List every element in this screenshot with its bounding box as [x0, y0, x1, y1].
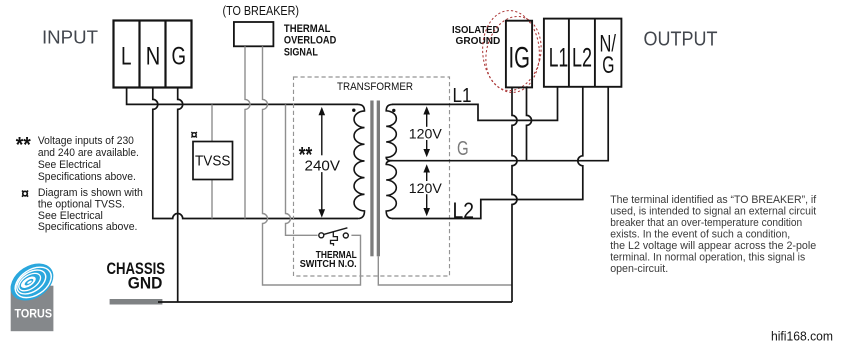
- svg-text:L1: L1: [549, 43, 568, 73]
- svg-text:open-circuit.: open-circuit.: [610, 263, 668, 275]
- wire N input with hop over L rail: [153, 88, 358, 219]
- input terminal block TB1: [114, 21, 192, 88]
- svg-text:G: G: [602, 52, 614, 79]
- svg-text:240V: 240V: [305, 158, 341, 175]
- TVSS module box: [193, 142, 233, 180]
- svg-text:G: G: [172, 43, 187, 71]
- svg-text:hifi168.com: hifi168.com: [771, 329, 833, 344]
- label THERMAL OVERLOAD SIGNAL: [284, 23, 336, 59]
- TVSS lead bottom (gray): [211, 180, 213, 219]
- primary polarity dot: [352, 109, 355, 112]
- core shield ground wire (gray): [378, 256, 512, 285]
- svg-text:TORUS: TORUS: [15, 309, 53, 321]
- 240V measurement arrow: [319, 107, 326, 218]
- svg-text:SIGNAL: SIGNAL: [284, 46, 318, 58]
- svg-text:(TO BREAKER): (TO BREAKER): [223, 4, 300, 18]
- svg-text:THERMAL: THERMAL: [284, 23, 331, 35]
- chassis ground bar: [110, 299, 163, 305]
- svg-text:SWITCH N.O.: SWITCH N.O.: [300, 259, 357, 270]
- svg-text:¤: ¤: [21, 187, 29, 203]
- svg-text:N: N: [146, 43, 161, 71]
- 120V upper label: [408, 127, 444, 140]
- svg-text:exists. In the event of such a: exists. In the event of such a condition…: [610, 228, 790, 240]
- label THERMAL SWITCH N.O.: [300, 250, 357, 270]
- IG terminal box: [506, 21, 532, 88]
- svg-text:the L2 voltage will appear ac: the L2 voltage will appear across the 2-…: [610, 240, 816, 252]
- wire thermal switch feed from L rail (gray): [286, 104, 318, 235]
- wire L input rail: [127, 88, 358, 105]
- wire L1 output: [392, 87, 558, 120]
- svg-text:See Electrical: See Electrical: [38, 210, 103, 222]
- svg-text:See Electrical: See Electrical: [38, 159, 101, 171]
- transformer secondary upper winding: [386, 104, 396, 160]
- transformer primary winding: [354, 104, 364, 218]
- wire L2 output with hop over G wire: [392, 87, 583, 218]
- svg-text:The terminal identified as “TO: The terminal identified as “TO BREAKER”,…: [610, 194, 817, 206]
- torus logo blue swirl: [4, 256, 61, 308]
- svg-text:Specifications above.: Specifications above.: [38, 221, 138, 233]
- svg-text:GROUND: GROUND: [456, 36, 501, 47]
- chassis rail wire: [158, 301, 512, 303]
- isolated ground label: [452, 25, 500, 47]
- svg-text:used, is intended to signal an: used, is intended to signal an external …: [610, 205, 817, 217]
- svg-text:120V: 120V: [409, 126, 443, 142]
- transformer core bars: [370, 101, 373, 257]
- wire IG left stub to chassis rail with hops: [512, 87, 517, 302]
- transformer secondary lower winding: [386, 161, 396, 219]
- transformer dashed enclosure: [294, 77, 450, 276]
- thermal switch lever: [324, 228, 348, 235]
- TVSS lead top (gray): [211, 104, 213, 141]
- svg-text:and 240 are available.: and 240 are available.: [38, 147, 139, 159]
- svg-text:120V: 120V: [409, 180, 443, 196]
- svg-text:Voltage inputs of 230: Voltage inputs of 230: [38, 135, 134, 147]
- svg-text:L2: L2: [572, 43, 592, 73]
- wire breaker lead A (gray) to N rail: [245, 46, 250, 218]
- wire G input with hop over L rail down to chassis: [178, 88, 183, 303]
- svg-text:**: **: [16, 134, 32, 157]
- svg-text:Diagram is shown with: Diagram is shown with: [38, 187, 143, 199]
- svg-text:TRANSFORMER: TRANSFORMER: [337, 81, 413, 93]
- svg-text:L: L: [121, 43, 132, 71]
- note paragraph about TO BREAKER: [610, 194, 817, 275]
- wire G center tap to N/G terminal: [392, 87, 608, 161]
- red emphasis ellipse around IG: [479, 9, 548, 96]
- breaker signal terminal box: [234, 22, 274, 46]
- label CHASSIS GND: [107, 260, 166, 293]
- svg-text:¤: ¤: [191, 127, 198, 142]
- svg-text:terminal. In normal operation,: terminal. In normal operation, this sign…: [610, 251, 805, 263]
- thermal switch actuator zigzag: [331, 231, 338, 246]
- svg-text:breaker that an over-temperatu: breaker that an over-temperature conditi…: [610, 217, 802, 229]
- 120V lower measurement arrow: [423, 164, 430, 216]
- svg-text:OVERLOAD: OVERLOAD: [284, 35, 336, 47]
- svg-text:INPUT: INPUT: [42, 28, 98, 48]
- thermal switch contact circles: [319, 233, 324, 238]
- svg-text:G: G: [457, 138, 469, 160]
- svg-text:GND: GND: [128, 275, 163, 293]
- torus logo gray plate: [11, 286, 54, 332]
- svg-text:IG: IG: [509, 42, 531, 75]
- svg-text:the optional TVSS.: the optional TVSS.: [38, 199, 125, 211]
- wire breaker lead B (gray) loop to thermal switch: [263, 46, 361, 285]
- wire IG right stub to G wire with hop: [527, 87, 532, 160]
- 120V upper measurement arrow: [423, 106, 430, 157]
- svg-text:OUTPUT: OUTPUT: [644, 28, 718, 50]
- output terminal block TB2: [544, 19, 622, 87]
- svg-text:Specifications above.: Specifications above.: [38, 171, 136, 183]
- secondary polarity dot: [392, 109, 395, 112]
- 240V label: [303, 155, 343, 172]
- 120V lower label: [408, 181, 444, 194]
- svg-text:TVSS: TVSS: [195, 154, 230, 170]
